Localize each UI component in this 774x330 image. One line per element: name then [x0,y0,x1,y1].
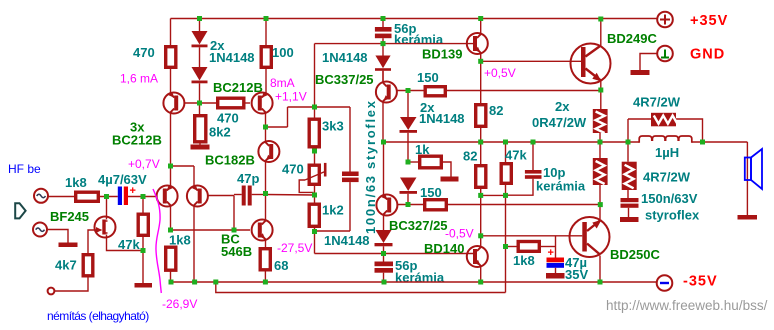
svg-text:kerámia: kerámia [395,270,445,285]
label 10p keramia [536,165,586,194]
node junction (314,195) [312,193,317,198]
resistor 3k3 [309,107,319,164]
svg-text:HF be: HF be [8,162,41,176]
svg-text:némítás (elhagyható): némítás (elhagyható) [47,309,149,323]
wire: 1k8 to cap [100,196,118,198]
svg-text:35V: 35V [565,267,588,282]
wavy annotation line [153,189,161,293]
node junction (216,282) [213,280,218,285]
svg-text:546B: 546B [221,244,252,259]
svg-text:GND: GND [690,47,725,63]
node junction (266,127) [263,125,268,130]
node junction (408,204) [406,202,411,207]
wire: BD250C base row [481,235,583,237]
wire: BC327 base row [398,204,424,206]
wire: cap to Q2a [128,196,156,198]
node junction (234,230) [232,228,237,233]
node junction (314,232) [312,229,317,234]
svg-text:+: + [548,247,554,259]
svg-text:BF245: BF245 [50,209,89,224]
svg-text:1µH: 1µH [655,145,679,160]
source circle 1 [34,189,48,203]
capacitor 10p [506,142,542,195]
wire: BC337 base to 150 [397,90,424,92]
inductor 1uH [639,136,692,143]
power resistor 0R47 (upper) [593,90,608,142]
wire: 47k-bottom column down [505,195,507,292]
svg-text:4µ7/63V: 4µ7/63V [98,172,147,187]
power resistor 0R47 (lower) [593,142,608,205]
wire: node166 branch [171,165,195,167]
wire: row 195.4 [481,194,506,196]
wire: top +35V rail [171,19,658,46]
svg-text:150: 150 [417,70,439,85]
capacitor 100n/63 styroflex [315,107,359,231]
capacitor 56p (bottom) [375,254,394,283]
svg-text:1N4148: 1N4148 [209,50,255,65]
capacitor 56p (top) [375,19,392,44]
svg-text:BC182B: BC182B [205,153,255,168]
terminal -35V [657,275,673,291]
node squares [104,16,705,285]
svg-text:8mA: 8mA [270,76,295,90]
svg-text:1N4148: 1N4148 [324,233,370,248]
node junction (481,18) [478,16,483,21]
node junction (170,166) [168,164,173,169]
transistor BC327/25 [376,142,397,230]
svg-text:47p: 47p [237,171,259,186]
power resistor 4R7/2W (horizontal) [651,113,677,127]
svg-text:BD249C: BD249C [607,31,657,46]
transistor T3 BC212B (top-right PNP mirrored) [252,92,273,127]
svg-text:68: 68 [274,258,288,273]
resistor 82 (upper) [476,61,486,142]
diode 1N4148 (bottom) [375,230,393,254]
speaker [745,149,762,189]
svg-text:47k: 47k [505,148,527,163]
node junction (200,18) [197,16,202,21]
resistor 68 [260,249,270,282]
transistor BC337/25 [376,71,397,142]
label 3x BC212B [112,120,162,148]
resistor 47k (input) [138,197,148,284]
node junction (481,236) [478,233,483,238]
svg-text:1k: 1k [415,142,430,157]
svg-text:47k: 47k [118,237,140,252]
svg-text:82: 82 [489,103,503,118]
transistor BD139 [467,19,488,62]
capacitor 47u/35V electrolytic [547,247,565,273]
wire: 470 to T1 [170,69,172,93]
node junction (266,18) [264,16,269,21]
node junction (702,142) [700,140,705,145]
resistor 82 (lower) [476,142,486,195]
transistor BD140 [467,195,488,282]
capacitor 4u7/63V electrolytic [118,185,136,205]
svg-text:4k7: 4k7 [55,258,77,273]
svg-text:4R7/2W: 4R7/2W [643,170,691,185]
node junction (383,44) [381,41,386,46]
wire: row 230 [171,229,251,231]
svg-text:-0,5V: -0,5V [445,227,474,241]
label 2x 0R47/2W [532,99,587,130]
wire: BD139 emitter to BD249C base [481,60,581,62]
node junction (266,194) [263,191,268,196]
node junction (143,250) [141,248,146,253]
svg-text:+0,7V: +0,7V [128,157,160,171]
resistor 1k8 (input) [76,192,99,201]
svg-text:8k2: 8k2 [209,125,231,140]
label 47u 35V [565,255,588,282]
svg-text:BC212B: BC212B [112,133,162,148]
resistor 1k8 (BD250C base) [506,236,556,258]
svg-text:1k2: 1k2 [322,203,344,218]
resistor 100 [261,19,271,94]
svg-text:BD140: BD140 [424,241,464,256]
transistor BD250C [570,205,610,282]
svg-text:-26,9V: -26,9V [162,297,197,311]
svg-text:100: 100 [272,45,294,60]
ground under 8k2 [191,144,210,150]
node junction (600,282) [598,280,603,285]
node junction (506,195) [503,193,508,198]
node junction (383,18) [381,16,386,21]
resistor 1k [408,156,451,176]
transistor Q2b BC212B [187,166,208,282]
svg-text:150: 150 [420,185,442,200]
svg-text:1k8: 1k8 [65,175,87,190]
node junction (481,282) [478,280,483,285]
svg-text:4R7/2W: 4R7/2W [633,95,681,110]
svg-text:150n/63V: 150n/63V [641,191,698,206]
diode D1 2x1N4148 top-left [192,19,208,48]
wire: source2 to ground [47,230,68,243]
svg-text:BD250C: BD250C [610,247,660,262]
svg-text:3k3: 3k3 [322,119,344,134]
svg-text:0R47/2W: 0R47/2W [532,115,587,130]
part label BC 546B [221,232,252,260]
diode D2 2x1N4148 top-left [192,47,208,103]
node junction (265,282) [263,280,268,285]
node junction (601,90) [598,88,603,93]
resistor 1k2 [309,204,319,253]
node junction (384,142) [381,140,386,145]
ground under 47k input [135,283,153,288]
svg-text:1k8: 1k8 [169,233,191,248]
ground under source2 [59,243,78,248]
wire: GND to ground [640,54,657,71]
node junction (408,162) [406,160,411,165]
node junction (506,246) [503,244,508,249]
wire: node193 to column 314 [266,194,315,197]
wire: T3 emitter to node 127 then right-up to row 107 [266,107,351,127]
wire: 470 to T3 [246,102,251,104]
svg-text:BC327/25: BC327/25 [389,218,448,233]
node junction (384,254) [381,251,386,256]
node junction (628,142) [626,140,631,145]
ground under speaker [738,215,758,220]
svg-text:1N4148: 1N4148 [419,111,465,126]
power resistor 4R7/2W (vertical) [622,142,637,198]
wire: base row to BD139 [383,43,474,45]
transistor BC182B [258,127,279,193]
wire: Q2b to 47p column [209,196,235,231]
input connector arrow HF [15,203,25,218]
svg-text:styroflex: styroflex [645,208,700,223]
svg-text:BD139: BD139 [422,47,462,62]
transistor BD249C [571,19,611,91]
resistor 470 (between T1,T3) [218,98,244,108]
svg-text:470: 470 [133,45,155,60]
node junction (384,282) [382,280,387,285]
wire: rail to speaker [746,142,748,215]
svg-text:BC212B: BC212B [213,80,263,95]
wire: bypass loop over inductor [628,119,703,142]
node junction (481,195) [478,193,483,198]
wire: source1 to 1k8 [48,196,75,198]
transistor T1 BC212B (top-left PNP) [163,92,184,166]
label 56p keramia (top) [394,21,444,47]
diode 1N4148 (under 56p) [375,44,391,82]
node junction (506,142) [503,140,508,145]
svg-text:+0,5V: +0,5V [484,66,516,80]
wire: 56p node row to column 314 [315,44,384,107]
wire: feedback detour [216,282,506,293]
transistor JFET BF245 [88,197,143,254]
node junction (171,282) [169,280,174,285]
svg-text:BC337/25: BC337/25 [315,72,374,87]
node junction (601,19) [598,17,603,22]
transistor BC546B [252,193,273,247]
node junction (600,205) [598,202,603,207]
node junction (481,61) [478,59,483,64]
svg-text:100n/63 styroflex: 100n/63 styroflex [363,100,378,234]
svg-text:kerámia: kerámia [536,179,586,194]
mid output rail [384,141,640,143]
resistor 8k2 [195,103,206,142]
svg-text:-27,5V: -27,5V [277,241,312,255]
svg-text:2x: 2x [555,99,570,114]
svg-text:+35V: +35V [690,13,728,29]
wire: T1 base row y=103 [185,102,216,104]
trimmer 470 [299,163,326,203]
resistor 4k7 [55,255,93,291]
node junction (170,230) [168,228,173,233]
node junction (408,90) [406,88,411,93]
node junction (314,107) [312,105,317,110]
svg-text:1N4148: 1N4148 [322,50,368,65]
node junction (600,142) [598,140,603,145]
node junction (195,282) [192,280,197,285]
wire: 150 to output node [447,204,601,206]
resistor 1k8 (lower left) [166,247,176,282]
resistor 470 (left bias) [166,47,176,68]
node junction (106,196) [104,194,109,199]
svg-text:82: 82 [463,149,477,164]
node junction (200,103) [197,101,202,106]
node junction (533,142) [531,140,536,145]
wire: 150 to BD249C emitter node [447,90,601,92]
node junction (481,142) [478,140,483,145]
svg-text:-35V: -35V [683,274,718,290]
svg-text:+1,1V: +1,1V [275,90,307,104]
terminal GND [657,46,673,62]
terminal +35V [657,12,673,28]
ground under 1k [441,177,459,182]
resistor 150 (lower) [425,200,447,210]
svg-text:1,6 mA: 1,6 mA [120,72,158,86]
label 56p keramia (bottom) [395,258,445,285]
svg-text:kerámia: kerámia [394,32,444,47]
svg-text:1k8: 1k8 [513,253,535,268]
source circle 2 [33,223,47,237]
ground under 47u [546,273,565,279]
svg-text:470: 470 [282,162,304,177]
svg-text:http://www.freeweb.hu/bss/: http://www.freeweb.hu/bss/ [606,298,768,313]
ground under 150n [620,217,639,222]
node junction (143,196) [141,194,146,199]
ground symbol near GND [631,70,650,75]
capacitor 47p [234,186,266,206]
diode 1N4148 lower middle [400,178,418,205]
wire: BD140 base row y=253.5 [315,253,474,255]
open terminal (mute) [48,288,55,295]
bottom -35V rail [171,281,657,283]
label 150n/63V styroflex [641,191,700,223]
svg-text:470: 470 [217,111,239,126]
diodes 2x1N4148 (middle) [400,91,418,163]
transistor Q2a BC212B [157,166,178,230]
resistor 150 (top) [425,87,445,96]
node junction (314,151) [312,149,317,154]
resistor 47k (mid) [501,142,511,195]
capacitor 150n/63V [621,198,639,217]
